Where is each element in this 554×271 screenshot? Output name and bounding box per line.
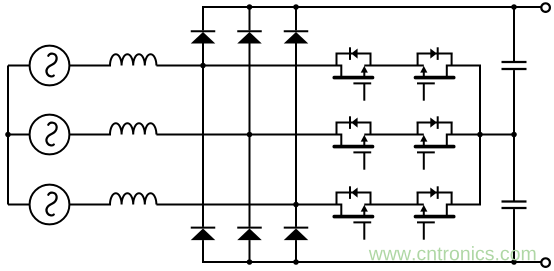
wire link Q3 to Q4 (364, 134, 424, 136)
MOSFET Q2 source arrow (420, 66, 427, 76)
MOSFET Q5 channel bar (334, 215, 372, 219)
wire inductor L2 to rectifier (phase B line) (156, 134, 341, 136)
inductor L3 (110, 193, 156, 204)
body diode of Q3 (350, 116, 358, 129)
wire Q2 output to midpoint bus (447, 65, 481, 67)
body diode of Q2 (430, 47, 437, 60)
MOSFET Q4 gate (417, 152, 435, 169)
wire bus to source V2 (8, 134, 30, 136)
inductor L1 (110, 54, 156, 65)
wire capacitor C2 to bottom rail (513, 209, 515, 262)
wire midpoint vertical bus (479, 66, 481, 205)
inductor L2 (110, 123, 156, 134)
wire body-diode loop of Q2 (417, 53, 453, 66)
node leg 3 bottom (293, 259, 299, 265)
MOSFET Q2 gate (417, 83, 435, 100)
node phase C to leg 3 (293, 202, 299, 208)
node leg 2 bottom (247, 259, 253, 265)
MOSFET Q2 channel bar (416, 76, 454, 80)
wire body-diode loop of Q5 (336, 192, 372, 205)
node phase B to leg 2 (247, 132, 253, 138)
MOSFET Q1 gate (353, 83, 371, 100)
watermark text www.cntronics.com (369, 246, 536, 260)
wire link Q5 to Q6 (364, 204, 424, 206)
terminal DC+ output (541, 3, 550, 12)
wire inductor L3 to rectifier (phase C line) (156, 204, 341, 206)
wire bottom rail (DC-) (202, 261, 542, 263)
wire top rail to capacitor C1 (513, 7, 515, 62)
wire body-diode loop of Q1 (336, 53, 372, 66)
wire bridge leg 2 upper segment (249, 7, 251, 30)
wire bridge leg 2 lower segment (249, 240, 251, 262)
wire bridge leg 1 lower segment (202, 240, 204, 262)
node capacitor string bottom (511, 259, 517, 265)
wire link Q1 to Q2 (364, 65, 424, 67)
MOSFET Q3 channel bar (334, 145, 372, 149)
wire body-diode loop of Q3 (336, 122, 372, 135)
body diode of Q1 (350, 47, 358, 60)
wire body-diode loop of Q6 (417, 192, 453, 205)
wire drain lead of Q1 (340, 65, 342, 77)
node leg 3 top (293, 4, 299, 10)
AC voltage source V1 (phase A) (30, 46, 70, 86)
wire source V3 to inductor L3 (69, 204, 111, 206)
wire bridge leg 3 middle segment (295, 44, 297, 227)
capacitor C2 (502, 202, 527, 209)
diode D5 (bottom, leg 2) (237, 228, 262, 241)
diode D6 (bottom, leg 3) (284, 228, 309, 241)
capacitor C1 (502, 62, 527, 69)
node capacitor string top (511, 4, 517, 10)
MOSFET Q1 channel bar (334, 76, 372, 80)
MOSFET Q3 gate (353, 152, 371, 169)
wire drain lead of Q3 (340, 134, 342, 146)
wire capacitor C1 to midpoint (513, 70, 515, 134)
diode D2 (top, leg 2) (237, 31, 262, 43)
body diode of Q6 (430, 186, 437, 199)
wire bus to source V1 (8, 65, 30, 67)
wire bridge leg 3 lower segment (295, 240, 297, 262)
diode D3 (top, leg 3) (284, 31, 309, 43)
body diode of Q4 (430, 116, 437, 129)
wire bridge leg 1 middle segment (202, 44, 204, 227)
wire left vertical bus (7, 66, 9, 205)
MOSFET Q4 channel bar (416, 145, 454, 149)
wire top rail (DC+) (202, 6, 542, 8)
diode D4 (bottom, leg 1) (191, 228, 216, 241)
MOSFET Q1 source arrow (361, 66, 368, 76)
terminal DC- output (541, 258, 550, 267)
MOSFET Q3 source arrow (361, 135, 368, 145)
wire Q4 output to midpoint bus (447, 134, 514, 136)
wire Q6 output to midpoint bus (447, 204, 481, 206)
wire source V2 to inductor L2 (69, 134, 111, 136)
wire bridge leg 2 middle segment (249, 44, 251, 227)
MOSFET Q5 gate (353, 222, 371, 239)
wire bridge leg 3 upper segment (295, 7, 297, 30)
wire bus to source V3 (8, 204, 30, 206)
wire drain lead of Q6 (446, 204, 448, 216)
node phase A to leg 1 (200, 63, 206, 69)
body diode of Q5 (350, 186, 358, 199)
wire drain lead of Q5 (340, 204, 342, 216)
MOSFET Q6 channel bar (416, 215, 454, 219)
node leg 2 top (247, 4, 253, 10)
AC voltage source V2 (phase B) (30, 115, 70, 155)
wire bridge leg 1 upper segment (202, 7, 204, 30)
node midpoint bus to phase B output (477, 132, 483, 138)
MOSFET Q6 source arrow (420, 205, 427, 215)
MOSFET Q6 gate (417, 222, 435, 239)
MOSFET Q4 source arrow (420, 135, 427, 145)
wire drain lead of Q4 (446, 134, 448, 146)
wire midpoint to capacitor C2 (513, 135, 515, 202)
wire drain lead of Q2 (446, 65, 448, 77)
AC voltage source V3 (phase C) (30, 185, 70, 225)
diode D1 (top, leg 1) (191, 31, 216, 43)
node capacitor midpoint (511, 132, 517, 138)
wire source V1 to inductor L1 (69, 65, 111, 67)
MOSFET Q5 source arrow (361, 205, 368, 215)
node N (neutral junction on left bus) (5, 132, 11, 138)
wire body-diode loop of Q4 (417, 122, 453, 135)
wire inductor L1 to rectifier (phase A line) (156, 65, 341, 67)
